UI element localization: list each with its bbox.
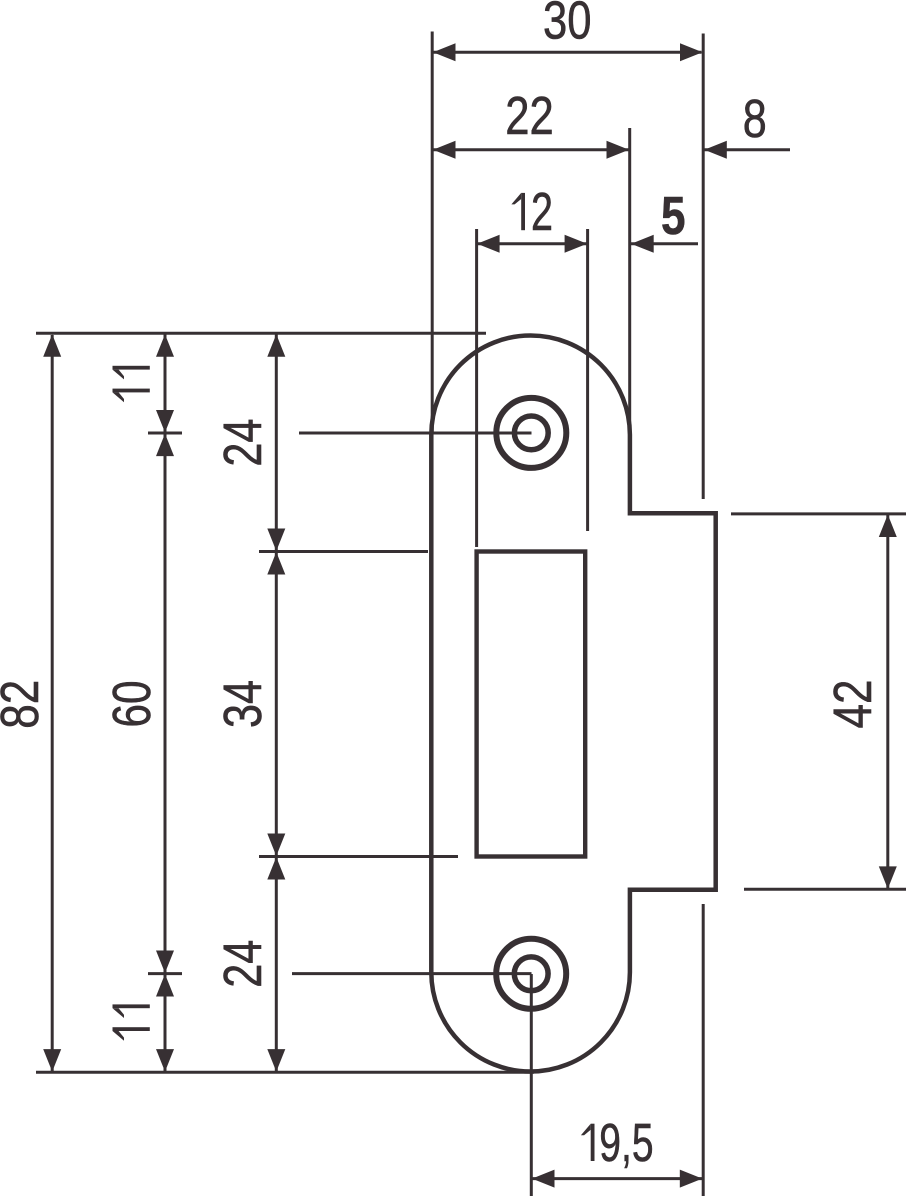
extension line cutout top (24/34) bbox=[259, 550, 428, 553]
svg-text:30: 30 bbox=[543, 0, 592, 51]
arrow 42 bottom bbox=[879, 866, 897, 889]
extension line plate bottom (82/11/24) bbox=[36, 1071, 534, 1074]
plate outline bbox=[431, 335, 715, 1071]
arrow 24 bottom down bbox=[267, 1049, 285, 1072]
svg-text:42: 42 bbox=[823, 680, 883, 729]
dimension line 30 bbox=[434, 51, 702, 54]
dimension line 5 bbox=[631, 242, 698, 245]
arrow 42 top bbox=[879, 515, 897, 538]
dimension line 22 bbox=[434, 148, 629, 151]
arrow 8 bbox=[704, 141, 727, 159]
arrow 19,5 left bbox=[532, 1170, 555, 1188]
extension line cutout bottom (34/24) bbox=[259, 855, 458, 858]
dimension line 19,5 bbox=[532, 1177, 702, 1180]
dimension line 11 top bbox=[164, 335, 167, 433]
arrow 34 bottom bbox=[267, 834, 285, 857]
dimension line 12 bbox=[478, 242, 587, 245]
dimension line 8 bbox=[705, 148, 791, 151]
centerline top hole horizontal bbox=[299, 432, 532, 435]
arrow 19,5 right bbox=[680, 1170, 703, 1188]
extension line lip right (19,5) bbox=[702, 904, 705, 1196]
arrow 30 left bbox=[433, 43, 456, 61]
extension line cutout left (12) bbox=[475, 229, 478, 547]
latch cutout rectangle bbox=[477, 552, 586, 857]
label 11 bottom rotated bbox=[113, 1004, 150, 1018]
arrow 82 bottom bbox=[43, 1049, 61, 1072]
extension line step bottom (42) bbox=[744, 888, 906, 891]
arrow 60 bottom bbox=[156, 951, 174, 974]
arrow 5 bbox=[631, 235, 654, 253]
label 19,5 bbox=[581, 1124, 595, 1161]
extension line overall width right (30) bbox=[702, 34, 705, 500]
extension line left edge (30/22) bbox=[431, 32, 434, 435]
svg-text:34: 34 bbox=[213, 680, 273, 728]
dimension line 60 bbox=[164, 434, 167, 973]
arrow 22 right bbox=[607, 141, 630, 159]
top screw hole outer bbox=[496, 398, 566, 468]
top screw hole inner bbox=[514, 416, 548, 450]
label 11 top rotated bbox=[113, 366, 150, 380]
svg-text:82: 82 bbox=[0, 680, 50, 729]
bottom screw hole inner bbox=[514, 957, 548, 991]
arrow 82 top bbox=[43, 334, 61, 357]
dimension line 11 bottom bbox=[164, 974, 167, 1072]
dimension line 82 bbox=[51, 335, 54, 1071]
arrow 12 left bbox=[477, 235, 500, 253]
svg-text:2: 2 bbox=[531, 182, 553, 242]
arrow 24 bottom up bbox=[267, 857, 285, 880]
svg-text:8: 8 bbox=[743, 89, 767, 149]
centerline bottom hole horizontal bbox=[292, 972, 532, 975]
label 12 bbox=[511, 193, 525, 230]
svg-text:5: 5 bbox=[661, 186, 686, 246]
arrow 12 right bbox=[565, 235, 588, 253]
svg-text:22: 22 bbox=[505, 86, 554, 146]
dimension line 24 bottom bbox=[275, 857, 278, 1072]
centerline bottom hole vertical (19,5) bbox=[530, 974, 533, 1196]
svg-text:60: 60 bbox=[102, 681, 162, 728]
svg-text:24: 24 bbox=[213, 940, 273, 988]
arrow 24 top up bbox=[267, 334, 285, 357]
arrow 60 top bbox=[156, 434, 174, 457]
svg-text:24: 24 bbox=[213, 419, 273, 467]
dimension line 34 bbox=[275, 552, 278, 856]
extension line step top (42) bbox=[731, 512, 906, 515]
bottom screw hole outer bbox=[496, 939, 566, 1009]
arrow 11 top down bbox=[156, 410, 174, 433]
arrow 30 right bbox=[680, 43, 703, 61]
arrow 11 bottom up bbox=[156, 974, 174, 997]
extension line plate top (82/11/24) bbox=[36, 332, 486, 335]
tick at 60/11 junction bottom bbox=[148, 972, 182, 975]
arrow 24 top down bbox=[267, 529, 285, 552]
arrow 34 top bbox=[267, 552, 285, 575]
extension line cutout right (12) bbox=[586, 229, 589, 531]
arrow 11 top up bbox=[156, 334, 174, 357]
svg-text:9,5: 9,5 bbox=[599, 1113, 653, 1173]
tick at 11/60 junction top bbox=[148, 432, 182, 435]
arrow 11 bottom down bbox=[156, 1049, 174, 1072]
arrow 22 left bbox=[433, 141, 456, 159]
extension line plate right edge (22/5) bbox=[628, 128, 631, 426]
dimension line 42 bbox=[886, 515, 889, 889]
dimension line 24 top bbox=[275, 335, 278, 552]
